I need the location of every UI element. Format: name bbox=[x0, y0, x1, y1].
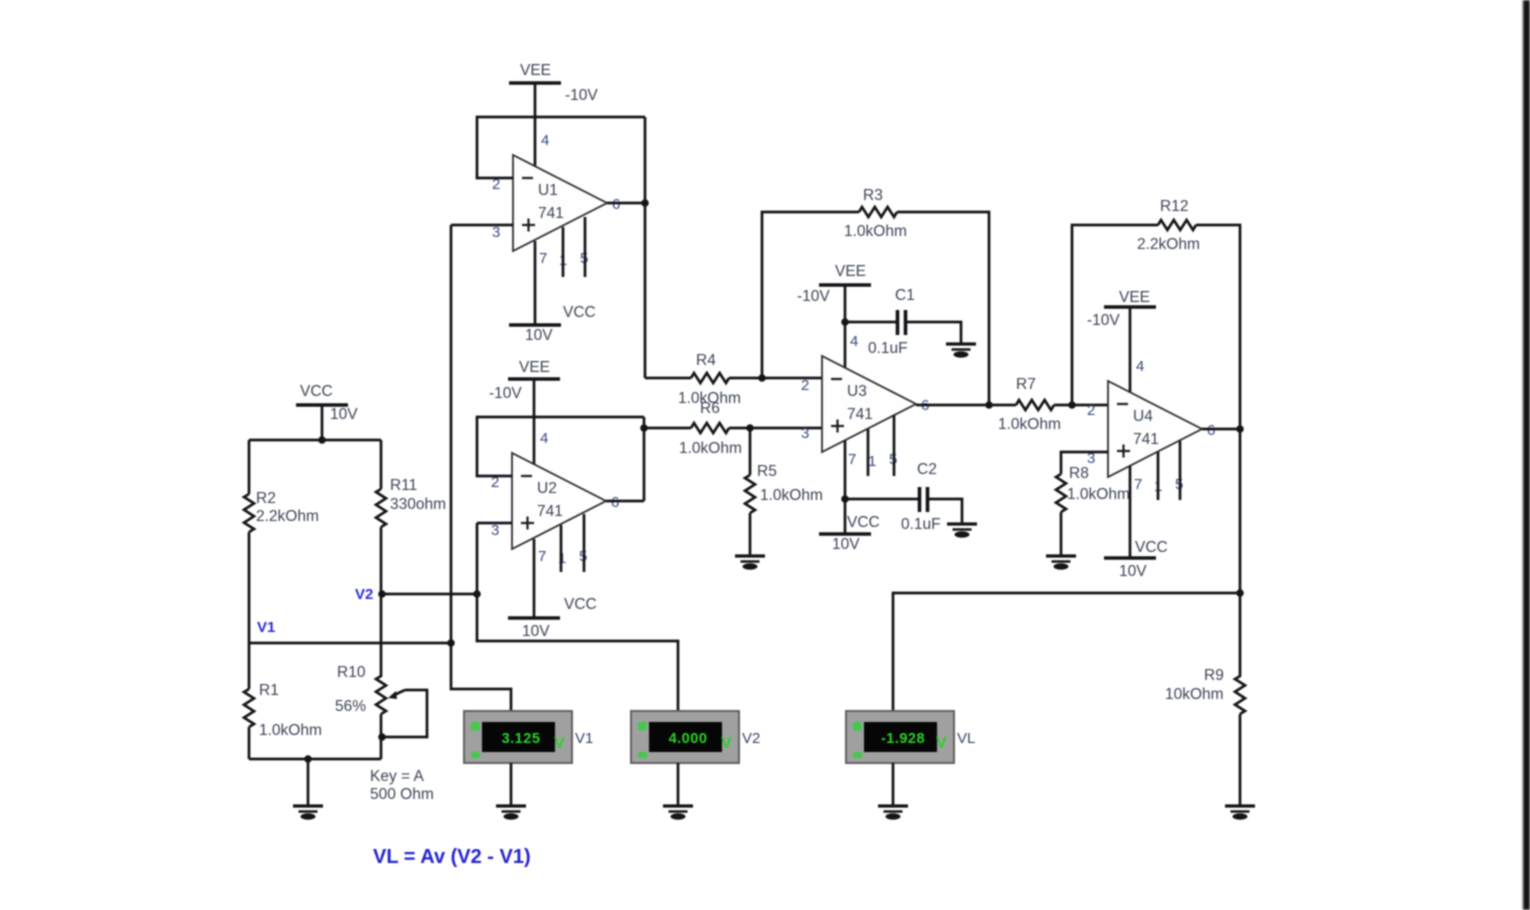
wire pin7 U3 bbox=[844, 440, 847, 534]
svg-text:56%: 56% bbox=[335, 698, 366, 715]
wire bbox=[729, 377, 822, 380]
wire bbox=[249, 642, 451, 645]
svg-text:1.0kOhm: 1.0kOhm bbox=[259, 722, 322, 739]
wire bbox=[893, 593, 1240, 711]
op-amp U3 bbox=[801, 333, 929, 470]
svg-text:VEE: VEE bbox=[520, 62, 551, 79]
ground bbox=[878, 806, 908, 820]
wire bbox=[477, 117, 645, 178]
svg-text:1.0kOhm: 1.0kOhm bbox=[1067, 486, 1130, 503]
svg-text:7: 7 bbox=[539, 250, 547, 267]
power VCC symbol (U3, 10V) bbox=[819, 514, 880, 553]
svg-text:VCC: VCC bbox=[1135, 539, 1168, 556]
svg-text:4: 4 bbox=[1136, 358, 1144, 375]
svg-text:3: 3 bbox=[491, 522, 499, 539]
wire bbox=[762, 212, 859, 378]
svg-text:R9: R9 bbox=[1204, 667, 1224, 684]
svg-text:-10V: -10V bbox=[565, 87, 598, 104]
wire bbox=[380, 440, 383, 489]
junction bbox=[378, 590, 386, 598]
svg-text:-10V: -10V bbox=[489, 385, 522, 402]
svg-text:10V: 10V bbox=[330, 406, 358, 423]
svg-text:VCC: VCC bbox=[847, 514, 880, 531]
svg-text:R5: R5 bbox=[757, 463, 777, 480]
svg-text:V1: V1 bbox=[575, 730, 593, 747]
capacitor C2 bbox=[901, 461, 941, 533]
wire bbox=[1054, 404, 1108, 407]
svg-text:3: 3 bbox=[801, 425, 809, 442]
power VEE symbol (U4, -10V) bbox=[1087, 289, 1156, 329]
resistor R1 bbox=[244, 682, 322, 739]
svg-text:4: 4 bbox=[541, 132, 549, 149]
ground bbox=[293, 806, 323, 820]
svg-text:R10: R10 bbox=[337, 664, 366, 681]
wiper arrow of R10 bbox=[392, 690, 405, 696]
svg-text:-10V: -10V bbox=[1087, 312, 1120, 329]
wire bbox=[892, 763, 895, 806]
wire bbox=[382, 690, 427, 737]
junction bbox=[746, 424, 754, 432]
power VCC symbol (U4, 10V) bbox=[1104, 539, 1168, 580]
junction bbox=[841, 495, 849, 503]
svg-text:6: 6 bbox=[611, 494, 619, 511]
wire pin1 U4 bbox=[1157, 452, 1160, 500]
ground bbox=[1225, 806, 1255, 820]
wire pin7 U4 bbox=[1129, 466, 1132, 558]
op-amp U2 bbox=[491, 430, 619, 567]
svg-text:741: 741 bbox=[1133, 431, 1159, 448]
wire bbox=[644, 427, 691, 430]
svg-text:VCC: VCC bbox=[563, 304, 596, 321]
power VCC symbol (U1, 10V) bbox=[509, 304, 596, 344]
svg-text:Key = A: Key = A bbox=[370, 768, 425, 785]
svg-text:R4: R4 bbox=[696, 352, 716, 369]
svg-text:2.2kOhm: 2.2kOhm bbox=[1137, 236, 1200, 253]
svg-text:-1.928: -1.928 bbox=[881, 731, 925, 747]
svg-text:R1: R1 bbox=[259, 682, 279, 699]
ground bbox=[1046, 556, 1076, 570]
wire bbox=[606, 500, 644, 503]
junction bbox=[640, 424, 648, 432]
junction bbox=[1068, 401, 1076, 409]
resistor R7 bbox=[998, 376, 1061, 433]
svg-text:C1: C1 bbox=[895, 287, 915, 304]
ground bbox=[947, 524, 977, 538]
wire bbox=[249, 439, 381, 442]
potentiometer R10 bbox=[335, 664, 386, 715]
junction bbox=[1236, 589, 1244, 597]
wire bbox=[897, 212, 989, 405]
junction bbox=[447, 639, 455, 647]
wire bbox=[729, 427, 822, 430]
ground bbox=[663, 806, 693, 820]
capacitor C1 bbox=[868, 287, 915, 357]
svg-text:1.0kOhm: 1.0kOhm bbox=[679, 440, 742, 457]
svg-text:3: 3 bbox=[492, 224, 500, 241]
svg-text:2: 2 bbox=[801, 377, 809, 394]
resistor R6 bbox=[679, 400, 742, 457]
svg-text:1.0kOhm: 1.0kOhm bbox=[760, 487, 823, 504]
svg-text:U4: U4 bbox=[1133, 408, 1153, 425]
svg-text:741: 741 bbox=[847, 406, 873, 423]
wire bbox=[248, 643, 251, 689]
svg-text:4.000: 4.000 bbox=[669, 731, 708, 747]
resistor R8 bbox=[1056, 465, 1130, 512]
ground bbox=[735, 556, 765, 570]
voltmeter VL bbox=[846, 711, 975, 763]
svg-text:R2: R2 bbox=[256, 490, 276, 507]
svg-text:10V: 10V bbox=[832, 536, 860, 553]
wire pin5 U3 bbox=[893, 415, 896, 476]
svg-text:4: 4 bbox=[540, 430, 548, 447]
voltmeter V1 bbox=[464, 711, 593, 763]
svg-text:0.1uF: 0.1uF bbox=[868, 340, 908, 357]
resistor R5 bbox=[745, 463, 823, 513]
wire pin4 U4 bbox=[1129, 307, 1132, 393]
svg-text:1.0kOhm: 1.0kOhm bbox=[998, 416, 1061, 433]
resistor R11 bbox=[376, 477, 446, 527]
power VEE symbol (U3, -10V) bbox=[797, 263, 871, 305]
op-amp U4 bbox=[1087, 358, 1215, 495]
svg-text:VEE: VEE bbox=[835, 263, 866, 280]
wire pin5 U2 bbox=[583, 514, 586, 572]
svg-text:R11: R11 bbox=[390, 477, 417, 494]
svg-text:2: 2 bbox=[1087, 402, 1095, 419]
svg-text:10V: 10V bbox=[525, 327, 553, 344]
svg-text:-10V: -10V bbox=[797, 288, 830, 305]
wire bbox=[1202, 428, 1240, 431]
wire bbox=[1196, 225, 1240, 677]
svg-text:330ohm: 330ohm bbox=[390, 496, 446, 513]
wire bbox=[928, 499, 963, 524]
wire bbox=[916, 404, 1016, 407]
power VCC symbol (U2, 10V) bbox=[508, 596, 597, 640]
svg-text:U2: U2 bbox=[537, 480, 557, 497]
wire pin1 U1 bbox=[562, 227, 565, 277]
svg-text:0.1uF: 0.1uF bbox=[901, 516, 941, 533]
svg-text:7: 7 bbox=[1134, 476, 1142, 493]
svg-text:VCC: VCC bbox=[300, 383, 333, 400]
wire bbox=[510, 763, 513, 806]
wire bbox=[845, 321, 898, 324]
junction bbox=[985, 401, 993, 409]
wire bbox=[644, 117, 647, 378]
wire pin5 U1 bbox=[584, 217, 587, 277]
wire pin4 U2 bbox=[533, 379, 536, 465]
wire bbox=[1239, 714, 1242, 806]
wire pin4 U1 bbox=[534, 83, 537, 167]
junction bbox=[318, 436, 326, 444]
svg-text:6: 6 bbox=[612, 196, 620, 213]
wire bbox=[607, 202, 645, 205]
wire pin3 U2 bbox=[477, 522, 512, 525]
svg-text:V: V bbox=[721, 735, 732, 752]
svg-text:1.0kOhm: 1.0kOhm bbox=[844, 223, 907, 240]
svg-text:V1: V1 bbox=[257, 619, 275, 636]
svg-text:R7: R7 bbox=[1016, 376, 1036, 393]
wire bbox=[307, 759, 310, 806]
svg-text:741: 741 bbox=[537, 503, 563, 520]
ground bbox=[946, 344, 976, 358]
svg-text:10kOhm: 10kOhm bbox=[1165, 686, 1224, 703]
wire bbox=[1072, 225, 1158, 405]
svg-text:741: 741 bbox=[538, 205, 564, 222]
svg-text:2.2kOhm: 2.2kOhm bbox=[256, 508, 319, 525]
wire bbox=[643, 417, 646, 501]
junction bbox=[304, 755, 312, 763]
wire bbox=[321, 405, 324, 440]
svg-text:VEE: VEE bbox=[1119, 289, 1150, 306]
svg-text:V: V bbox=[554, 735, 565, 752]
svg-text:R6: R6 bbox=[700, 400, 720, 417]
power VEE symbol (U1, -10V) bbox=[509, 62, 598, 104]
wire bbox=[749, 513, 752, 556]
junction bbox=[378, 733, 386, 741]
svg-text:R8: R8 bbox=[1069, 465, 1089, 482]
junction bbox=[1236, 425, 1244, 433]
wire bbox=[749, 428, 752, 475]
svg-text:V: V bbox=[936, 735, 947, 752]
wire bbox=[249, 758, 381, 761]
ground bbox=[496, 806, 526, 820]
wire pin7 U2 bbox=[533, 539, 536, 618]
wire pin7 U1 bbox=[534, 241, 537, 325]
svg-text:C2: C2 bbox=[917, 461, 937, 478]
wire pin5 U4 bbox=[1179, 441, 1182, 500]
svg-text:R12: R12 bbox=[1160, 198, 1188, 215]
wire bbox=[248, 440, 251, 494]
svg-text:R3: R3 bbox=[863, 187, 883, 204]
wire pin1 U2 bbox=[560, 525, 563, 572]
resistor R4 bbox=[678, 352, 741, 407]
wire bbox=[381, 593, 477, 596]
wire pin1 U3 bbox=[867, 429, 870, 476]
op-amp U1 bbox=[492, 132, 620, 269]
wire bbox=[845, 498, 920, 501]
junction bbox=[841, 318, 849, 326]
svg-text:U3: U3 bbox=[847, 383, 867, 400]
svg-text:VL: VL bbox=[957, 730, 975, 747]
svg-text:7: 7 bbox=[848, 451, 856, 468]
svg-text:V2: V2 bbox=[742, 730, 760, 747]
junction bbox=[641, 199, 649, 207]
svg-text:4: 4 bbox=[850, 333, 858, 350]
svg-text:U1: U1 bbox=[538, 182, 558, 199]
wire bbox=[380, 527, 383, 677]
resistor R9 bbox=[1165, 667, 1245, 714]
svg-text:500 Ohm: 500 Ohm bbox=[370, 786, 434, 803]
wire bbox=[451, 225, 511, 711]
svg-text:V2: V2 bbox=[355, 586, 373, 603]
resistor R3 bbox=[844, 187, 907, 240]
power VEE symbol (U2, -10V) bbox=[489, 359, 560, 402]
svg-text:3.125: 3.125 bbox=[502, 731, 541, 747]
wire pin4 U3 bbox=[844, 285, 847, 368]
svg-text:6: 6 bbox=[1207, 422, 1215, 439]
voltmeter V2 bbox=[631, 711, 760, 763]
junction bbox=[473, 590, 481, 598]
svg-text:10V: 10V bbox=[1119, 563, 1147, 580]
resistor R12 bbox=[1137, 198, 1200, 253]
wire bbox=[677, 763, 680, 806]
wire bbox=[477, 417, 644, 476]
wire pin3 U1 bbox=[451, 224, 513, 227]
wire bbox=[1060, 512, 1063, 556]
svg-text:VEE: VEE bbox=[519, 359, 550, 376]
wire bbox=[248, 727, 251, 759]
svg-text:VCC: VCC bbox=[564, 596, 597, 613]
power VCC symbol (divider supply 10V) bbox=[296, 383, 358, 423]
wire bbox=[906, 322, 962, 344]
svg-text:10V: 10V bbox=[522, 623, 550, 640]
junction bbox=[758, 374, 766, 382]
resistor R2 bbox=[244, 490, 319, 532]
wire bbox=[380, 714, 383, 759]
wire bbox=[645, 377, 691, 380]
wire pin3 U4 bbox=[1061, 452, 1108, 474]
wire bbox=[248, 532, 251, 643]
svg-text:VL = Av (V2 - V1): VL = Av (V2 - V1) bbox=[373, 846, 531, 868]
svg-text:7: 7 bbox=[538, 548, 546, 565]
wire bbox=[477, 523, 678, 711]
